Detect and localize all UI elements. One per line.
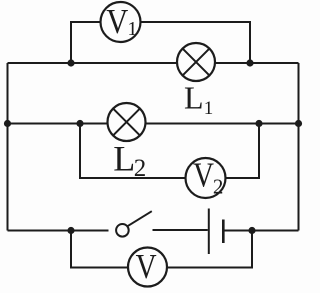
- svg-text:V: V: [136, 247, 157, 286]
- svg-text:2: 2: [134, 155, 147, 182]
- svg-text:1: 1: [127, 18, 137, 40]
- svg-text:V: V: [106, 2, 128, 41]
- svg-text:2: 2: [213, 175, 224, 199]
- svg-text:1: 1: [204, 98, 214, 119]
- svg-text:L: L: [184, 79, 204, 115]
- svg-text:L: L: [113, 138, 135, 178]
- svg-text:V: V: [193, 156, 214, 195]
